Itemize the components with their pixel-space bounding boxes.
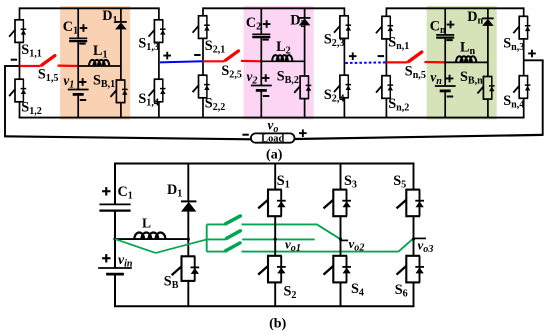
wire: module 1 diode branch lower [120,103,122,118]
wire: green output 2 to leg 1 [242,238,315,240]
label minus of v2 [263,95,269,97]
wire: module n right node to outer right [524,59,544,61]
wire: module 1 junction to S_B [120,66,122,80]
wire: module 2 cap to mid junction [260,37,262,61]
capacitor C1 (fig b) [99,203,130,205]
wire: module 2 left node to S22 [202,61,204,75]
wire: module 1 L row [78,65,121,67]
wire: module 2 top rail [203,7,344,9]
wire: module 2 L row [261,60,304,62]
wire: leg S5/S6 upper [413,164,415,190]
switch S1,4 [154,78,163,80]
switch S4 [333,255,347,257]
label plus of C2 [263,23,271,25]
switch S5 [406,189,420,191]
wire: switch S6 lower [413,282,415,306]
wire: module 2 mid branch upper [260,8,262,34]
wire: module n left branch upper [385,7,387,16]
wire: diode D1 to node [187,211,189,239]
switch Sn,1 [382,15,391,17]
source v1 [68,89,89,91]
wire: green stub 2 [207,238,226,240]
switch blade 3 (green) [226,243,240,251]
switch S1 [268,189,282,191]
switch blade S1,5 (red) [42,56,55,66]
inductor L2 [272,55,292,61]
node: boost node (fig b) [187,238,190,241]
label plus of C1 (fig b) [102,190,110,192]
wire: output tick vo3 [414,237,427,239]
label minus at module 1 left node [11,59,17,61]
wire: module n diode branch lower [487,99,489,118]
switch Sn,2 [382,75,391,77]
wire: figure (b) bottom rail [114,305,415,307]
wire: red to module n mid junction [424,61,445,64]
label plus at module 2 right node [349,55,357,57]
label minus of Cn [446,39,452,41]
label plus at module 1 right node [163,55,171,57]
wire: load plus lead [295,135,543,139]
wire: green stub 1 [207,223,225,225]
wire: switch S3 to midpoint [340,216,342,239]
wire: module 1 mid branch lower [77,94,79,117]
switch blade 1 (green) [226,216,241,224]
inductor L (fig b) [134,233,165,240]
switch S2,2 [199,74,208,76]
wire: module 1 mid junction to source [77,66,79,90]
wire: red to module 2 mid junction [241,60,261,63]
switch blade 2 (green) [227,231,241,239]
wire: module n mid junction to source [444,62,446,86]
wire: figure (b) top rail [114,163,415,165]
switch S_B,n [483,76,492,78]
wire: module n left branch to node [385,39,387,63]
label minus of vn [447,96,453,98]
inductor L1 [89,60,109,66]
node: input node (fig b) [113,238,116,241]
wire: red from module 2 left node [203,60,224,62]
label minus of C2 [262,39,268,41]
wire: midpoint to switch S6 [413,239,415,256]
switch S2 [268,255,282,257]
svg-text:Load: Load [261,133,284,144]
switch S_B,1 [116,79,125,81]
switch S_B,2 [300,75,309,77]
wire: module n right branch upper [523,7,525,16]
wire: module n junction to S_B [487,62,489,76]
switch S1,1 [15,19,24,21]
label plus of vin [102,257,110,259]
wire: boost leg lower [187,281,189,306]
wire: module n top rail [386,7,523,9]
wire: module 1 cap to mid junction [77,41,79,66]
wire: midpoint to switch S4 [340,239,342,256]
wire: module 1 left node to S12 [19,66,21,79]
wire: output tick vo2 [340,239,349,241]
wire: figure (a) bottom rail [19,117,525,119]
wire: midpoint to switch S2 [274,239,276,256]
wire: red from module 1 left node [20,65,41,67]
wire: module 1 left branch upper [19,7,21,19]
wire: switch S4 lower [340,282,342,306]
svg-text:(a): (a) [266,148,283,163]
label plus of v1 [79,81,87,83]
wire: figure (b) left rail lower [114,274,116,306]
diode D1 (fig b) [181,200,196,202]
highlight band module n [427,6,497,120]
label minus at module n left node [378,55,384,57]
wire: module 1 diode branch upper [120,8,122,22]
switch Sn,3 [519,15,528,17]
wire: module 2 mid junction to source [260,61,262,85]
wire: green bus vertical [206,224,208,251]
switch S6 [406,255,420,257]
capacitor Cn [436,34,454,36]
label minus at load [242,134,248,136]
label minus of C1 [79,43,85,45]
diode D1 [115,21,127,23]
wire: module 1 left branch to node [19,42,21,66]
wire: module n cap to mid junction [444,38,446,63]
wire: module 2 diode branch lower [304,99,306,118]
wire: blue link module 1 to module 2 [160,61,203,62]
wire: module n left branch lower [385,98,387,117]
highlight band module 1 [60,6,130,120]
wire: module 1 left branch lower [19,102,21,118]
label plus of vn [446,78,454,80]
capacitor C2 [252,33,270,35]
switch S1,3 [154,19,163,21]
wire: module 2 left branch upper [202,7,204,15]
label plus of C1 [80,27,88,29]
wire: module n mid branch lower [444,91,446,118]
wire: red to module 1 mid junction [58,64,79,67]
wire: module n left node to Sn2 [385,62,387,75]
wire: red from module n left node [386,61,407,63]
wire: module 2 diode to junction [304,25,306,61]
switch S2,4 [340,74,349,76]
load (stadium shape) [251,133,295,142]
wire: module 1 right branch lower [158,102,160,118]
wire: boost node to switch SB [187,239,189,256]
wire: module n right branch to node [523,39,525,60]
wire: input node to inductor [115,238,188,240]
wire: green output 1 to leg 2 [242,224,340,238]
switch S2,3 [340,15,349,17]
switch blade S2,5 (red) [225,51,238,61]
source vn [435,85,456,87]
wire: module 1 left node to outer left [5,65,20,67]
wire: module n right branch lower [523,98,525,117]
wire: switch S2 lower [274,282,276,306]
wire: green stub 3 [207,251,225,253]
label plus at load [299,132,307,134]
wire: module 1 mid branch upper [77,8,79,38]
wire: module 2 right branch to node [343,38,345,63]
capacitor C1 [69,37,87,39]
wire: green output 3 to leg 3 [242,238,414,251]
switch SB (fig b) [182,255,196,257]
wire: blue dashed link module 2 to module n [345,61,386,64]
wire: switch S1 to midpoint [274,216,276,239]
switch S3 [333,189,347,191]
node: leg S3/S4 midpoint [339,238,342,241]
wire: module 2 left branch to node [202,38,204,61]
diode D2 [299,17,311,19]
wire: figure (b) left rail middle [114,211,116,268]
label minus of v1 [80,99,86,101]
label plus of v2 [262,77,270,79]
wire: module 2 right branch upper [343,7,345,15]
wire: module 1 diode to junction [120,29,122,66]
wire: green feed from input node [115,239,207,253]
wire: figure (b) left rail upper [114,164,116,205]
wire: module 1 right node to S14 [158,62,160,79]
wire: leg S1/S2 upper [274,164,276,190]
wire: module 2 diode branch upper [304,8,306,18]
source vin [98,267,132,269]
wire: module 2 right node to S24 [343,63,345,75]
switch S2,1 [199,15,208,17]
wire: module 2 mid branch lower [260,90,262,117]
wire: leg S3/S4 upper [340,164,342,190]
node: leg S5/S6 midpoint [412,238,415,241]
wire: module 2 right branch lower [343,98,345,118]
wire: load minus lead [4,136,251,139]
svg-text:(b): (b) [269,317,286,332]
node: leg S1/S2 midpoint [274,238,277,241]
wire: boost leg upper [187,164,189,202]
label plus at module n right node [528,53,536,55]
wire: module 2 junction to S_B [304,61,306,76]
highlight band module 2 [244,6,314,120]
wire: outer right drop [542,60,544,136]
wire: module n right node to Sn4 [523,60,525,75]
switch blade Sn,5 (red) [409,52,422,62]
wire: outer left drop [4,65,6,136]
wire: module n mid branch upper [444,8,446,35]
switch Sn,4 [519,75,528,77]
wire: module n diode to junction [487,25,489,62]
diode Dn [482,17,494,19]
source v2 [251,85,272,87]
label minus at module 2 left node [194,54,200,56]
wire: module n diode branch upper [487,8,489,18]
wire: module 1 top rail [20,7,159,9]
wire: module 2 left branch lower [202,98,204,118]
switch S1,2 [15,78,24,80]
wire: module 1 right branch upper [158,7,160,19]
inductor Ln [456,56,476,62]
svg-text:L: L [142,216,151,231]
wire: switch S5 to midpoint [413,216,415,239]
label plus of Cn [447,24,455,26]
wire: module n L row [445,61,488,63]
wire: module 1 right branch to node [158,42,160,62]
